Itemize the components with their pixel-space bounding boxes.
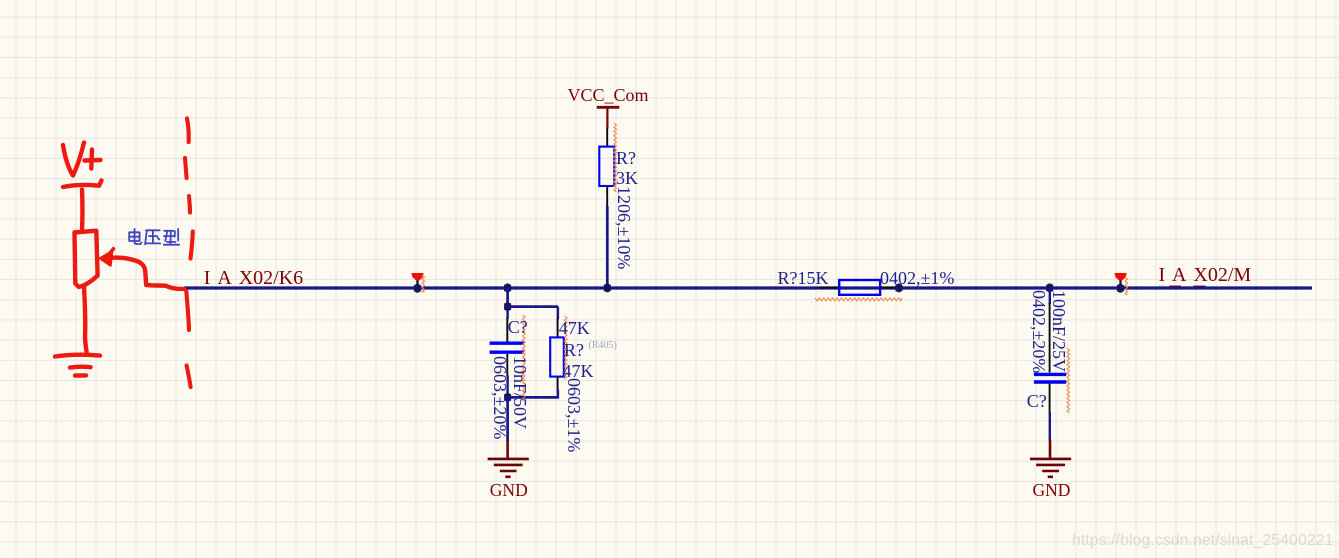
junction J6 [895,284,902,293]
ground symbol GND right stem [1049,440,1052,460]
wire C2 to ground right [1049,412,1051,441]
power port VCC_Com bar [597,106,620,109]
resistor R2 15K left pin [819,287,840,289]
designator R1 [616,149,636,168]
junction J5 bottom node [504,393,511,402]
capacitor C2 bottom pin [1049,384,1051,413]
designator R3 [564,341,584,360]
error squiggle R2 [815,298,902,301]
wire C1 to bottom node [506,376,508,399]
capacitor C1 top pin [506,318,508,342]
error squiggle T1 [422,275,425,292]
power port label VCC_Com [568,86,649,105]
error squiggle C2 [1067,348,1070,413]
resistor R1 bottom pin [606,186,608,208]
capacitor C2 100nF plate bottom [1034,380,1066,383]
resistor R3 47K body [550,337,564,376]
annotation dashed line seg5 [186,291,189,330]
parameter R2 footprint [880,269,954,288]
annotation (R405) [589,340,617,351]
annotation dashed line seg2 [185,158,187,178]
wire to capacitor C1 [506,307,508,319]
net label I_A_X02/K6 [204,268,303,289]
no-ERC marker T1 [411,273,423,286]
annotation dashed line seg3 [189,196,190,213]
ground symbol GND left stem [506,440,509,459]
parameter R3 footprint vertical [564,378,583,452]
wire J2 down to branch node [506,288,509,307]
junction J8 [1117,284,1124,293]
value R1 3K [616,169,638,188]
annotation text 型 [164,229,180,245]
resistor R3 top pin [557,318,559,338]
error squiggle R3 [565,316,568,379]
resistor R1 top pin [606,128,608,148]
wire R3 to bottom node [557,390,559,399]
resistor R2 right pin [880,287,898,289]
power port VCC_Com stem [606,108,608,129]
wire branch top horizontal [508,305,558,308]
annotation battery bar [63,181,102,188]
value R3 47K top [559,319,590,338]
annotation text 电 [129,229,141,244]
grip mark left wire end [203,286,206,290]
resistor R1 3K body [599,147,614,186]
wire main horizontal net I_A_X02 [184,286,1312,289]
watermark [1072,532,1334,549]
ground symbol GND left bars [488,459,529,477]
annotation dashed line seg4 [191,232,193,259]
ground label GND left [490,481,528,499]
designator C2 [1027,392,1047,411]
capacitor C1 10nF plate bottom [490,351,525,354]
annotation dashed line seg6 [187,366,191,388]
underscore slivers of I_A_X02/M [1169,286,1181,288]
annotation ground bars [55,355,100,376]
junction J3 [604,284,611,293]
capacitor C1 10nF plate top [490,342,525,345]
no-ERC marker T2 [1114,273,1126,286]
error squiggle C1 [523,315,526,400]
capacitor C2 top pin [1049,303,1051,373]
parameter C2 footprint vertical [1029,290,1048,373]
resistor R2 15K body [839,280,880,295]
error squiggle R1 [614,123,617,192]
wire branch bottom horizontal [508,396,558,399]
annotation V+ plus sign [85,150,101,169]
designator R2 with value 15K [778,269,829,288]
value C2 100nF/25V vertical [1049,290,1068,372]
wire R1 to main net [606,206,609,288]
ground label GND right [1033,481,1071,499]
value R3 47K [563,362,594,381]
parameter R1 footprint vertical [614,186,633,269]
capacitor C2 100nF plate top [1034,373,1066,376]
junction J7 [1046,284,1053,293]
wire J7 down [1049,288,1051,304]
annotation stem upper [80,190,85,232]
annotation dashed line seg1 [187,119,189,143]
resistor R3 bottom pin [557,377,559,391]
grip mark right label [1160,285,1163,289]
annotation sensor rectangle [75,231,98,287]
annotation stem lower [84,287,87,352]
annotation V+ letter V [63,143,84,176]
annotation arrow shaft [110,258,184,289]
error squiggle T2 [1125,277,1128,295]
junction J1 [414,284,421,293]
junction J2 [504,284,511,293]
annotation text 压 [145,230,160,244]
ground symbol GND right bars [1030,459,1071,477]
value C1 10nF/50V vertical [510,356,529,429]
parameter C1 footprint vertical [490,356,509,439]
designator C1 [508,318,528,337]
wire to resistor R3 47K [557,307,559,319]
junction J4 branch node [504,302,511,311]
capacitor C1 bottom pin [506,354,508,377]
annotation arrow head [108,249,114,256]
net label I_A_X02/M [1159,265,1252,286]
wire to ground left [506,398,509,441]
